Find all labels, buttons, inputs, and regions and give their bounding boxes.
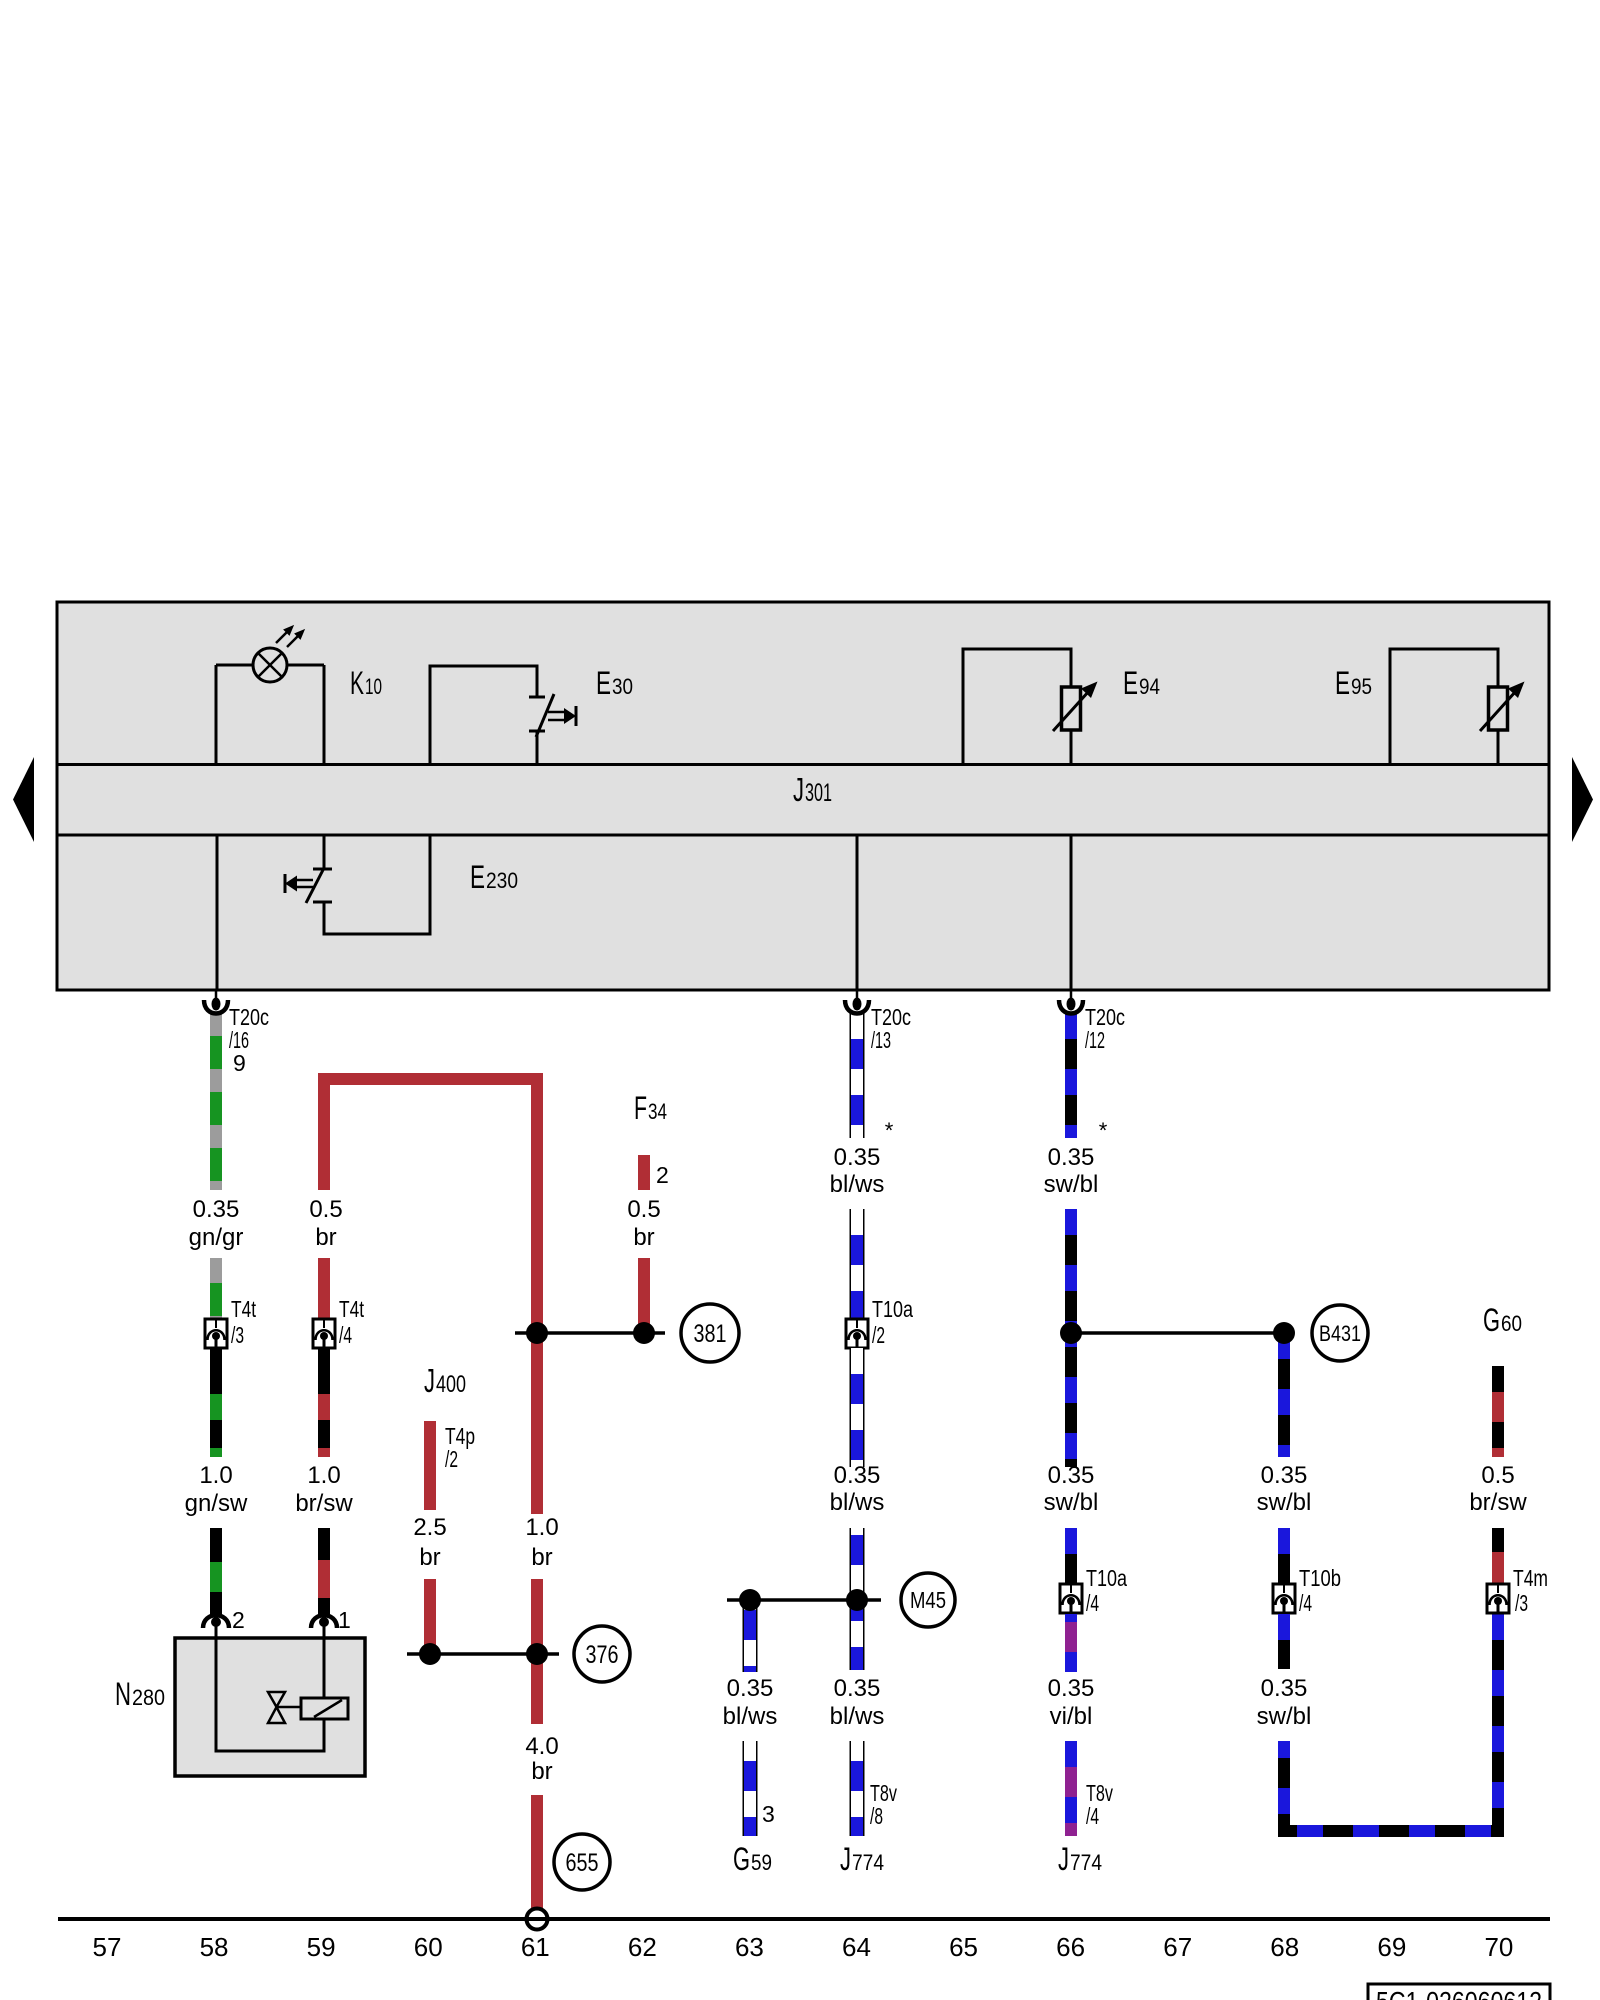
svg-text:T4m: T4m [1513,1565,1548,1591]
svg-text:br/sw: br/sw [295,1490,353,1517]
svg-text:/4: /4 [339,1322,352,1348]
svg-text:br: br [419,1544,440,1571]
svg-text:0.5: 0.5 [627,1196,660,1223]
svg-text:1: 1 [338,1607,351,1633]
svg-text:T10b: T10b [1299,1565,1341,1591]
svg-text:M45: M45 [910,1587,946,1613]
svg-text:/3: /3 [231,1322,244,1348]
svg-text:60: 60 [1501,1311,1522,1336]
svg-text:/12: /12 [1085,1027,1105,1053]
svg-text:2: 2 [232,1607,245,1633]
svg-text:70: 70 [1484,1932,1513,1962]
svg-text:bl/ws: bl/ws [830,1703,885,1730]
svg-text:br: br [633,1224,654,1251]
svg-text:62: 62 [628,1932,657,1962]
svg-text:gn/sw: gn/sw [185,1490,248,1517]
svg-text:301: 301 [805,779,832,807]
svg-text:0.5: 0.5 [1481,1462,1514,1489]
svg-text:9: 9 [233,1050,246,1076]
svg-text:68: 68 [1270,1932,1299,1962]
svg-text:66: 66 [1056,1932,1085,1962]
svg-text:5C1-026060612: 5C1-026060612 [1376,1986,1542,2000]
svg-text:T10a: T10a [1086,1565,1127,1591]
svg-text:E: E [470,859,485,895]
svg-text:E: E [596,665,611,701]
svg-text:G: G [1483,1302,1500,1338]
svg-text:J: J [1058,1841,1069,1877]
svg-text:774: 774 [852,1850,884,1875]
svg-text:/13: /13 [871,1027,891,1053]
svg-text:/2: /2 [872,1322,885,1348]
svg-text:br/sw: br/sw [1469,1489,1527,1516]
svg-text:0.35: 0.35 [1261,1462,1308,1489]
svg-text:1.0: 1.0 [525,1514,558,1541]
svg-text:/8: /8 [870,1803,883,1829]
svg-text:/4: /4 [1086,1590,1099,1616]
svg-text:400: 400 [436,1371,466,1398]
svg-text:58: 58 [200,1932,229,1962]
svg-text:0.5: 0.5 [309,1196,342,1223]
svg-text:1.0: 1.0 [199,1462,232,1489]
svg-text:67: 67 [1163,1932,1192,1962]
svg-text:0.35: 0.35 [1048,1462,1095,1489]
svg-text:2.5: 2.5 [413,1514,446,1541]
svg-text:sw/bl: sw/bl [1257,1489,1312,1516]
svg-text:E: E [1335,665,1350,701]
svg-text:280: 280 [132,1685,165,1710]
svg-text:774: 774 [1070,1850,1102,1875]
svg-text:0.35: 0.35 [834,1675,881,1702]
svg-text:sw/bl: sw/bl [1257,1703,1312,1730]
svg-text:bl/ws: bl/ws [830,1489,885,1516]
svg-text:sw/bl: sw/bl [1044,1171,1099,1198]
svg-text:655: 655 [566,1849,599,1877]
svg-text:57: 57 [93,1932,122,1962]
svg-text:/3: /3 [1515,1590,1528,1616]
svg-text:0.35: 0.35 [834,1462,881,1489]
svg-text:64: 64 [842,1932,871,1962]
svg-text:1.0: 1.0 [307,1462,340,1489]
svg-text:vi/bl: vi/bl [1050,1703,1093,1730]
svg-text:T10a: T10a [872,1296,913,1322]
svg-text:*: * [885,1118,894,1143]
svg-text:95: 95 [1351,674,1372,699]
svg-text:376: 376 [586,1641,619,1669]
svg-text:N: N [115,1676,131,1712]
svg-text:0.35: 0.35 [1048,1675,1095,1702]
svg-text:/4: /4 [1299,1590,1312,1616]
svg-text:br: br [531,1758,552,1785]
svg-text:br: br [531,1544,552,1571]
svg-text:60: 60 [414,1932,443,1962]
svg-text:F: F [634,1090,647,1126]
svg-text:gn/gr: gn/gr [189,1224,244,1251]
svg-text:2: 2 [656,1162,669,1188]
svg-text:94: 94 [1139,674,1160,699]
svg-text:*: * [1099,1118,1108,1143]
svg-text:/4: /4 [1086,1803,1099,1829]
svg-text:J: J [840,1841,851,1877]
svg-text:69: 69 [1377,1932,1406,1962]
svg-text:E: E [1123,665,1138,701]
svg-text:0.35: 0.35 [1048,1144,1095,1171]
svg-text:34: 34 [648,1099,667,1124]
svg-text:230: 230 [486,868,518,893]
svg-text:65: 65 [949,1932,978,1962]
svg-text:K: K [350,665,364,701]
svg-text:30: 30 [612,674,633,699]
svg-text:J: J [793,771,804,808]
svg-text:4.0: 4.0 [525,1733,558,1760]
svg-text:10: 10 [365,674,382,699]
svg-text:381: 381 [694,1320,727,1348]
svg-text:61: 61 [521,1932,550,1962]
svg-text:sw/bl: sw/bl [1044,1489,1099,1516]
svg-text:G: G [733,1841,750,1877]
svg-text:br: br [315,1224,336,1251]
svg-text:0.35: 0.35 [193,1196,240,1223]
svg-text:B431: B431 [1319,1321,1361,1346]
svg-text:bl/ws: bl/ws [723,1703,778,1730]
svg-text:0.35: 0.35 [1261,1675,1308,1702]
svg-text:T4t: T4t [339,1296,364,1322]
svg-text:bl/ws: bl/ws [830,1171,885,1198]
svg-text:0.35: 0.35 [834,1144,881,1171]
svg-text:J: J [424,1362,435,1399]
svg-text:59: 59 [751,1850,772,1875]
svg-text:/2: /2 [445,1446,458,1472]
svg-text:3: 3 [762,1801,775,1827]
svg-text:59: 59 [307,1932,336,1962]
svg-text:0.35: 0.35 [727,1675,774,1702]
svg-text:T4t: T4t [231,1296,256,1322]
svg-text:63: 63 [735,1932,764,1962]
